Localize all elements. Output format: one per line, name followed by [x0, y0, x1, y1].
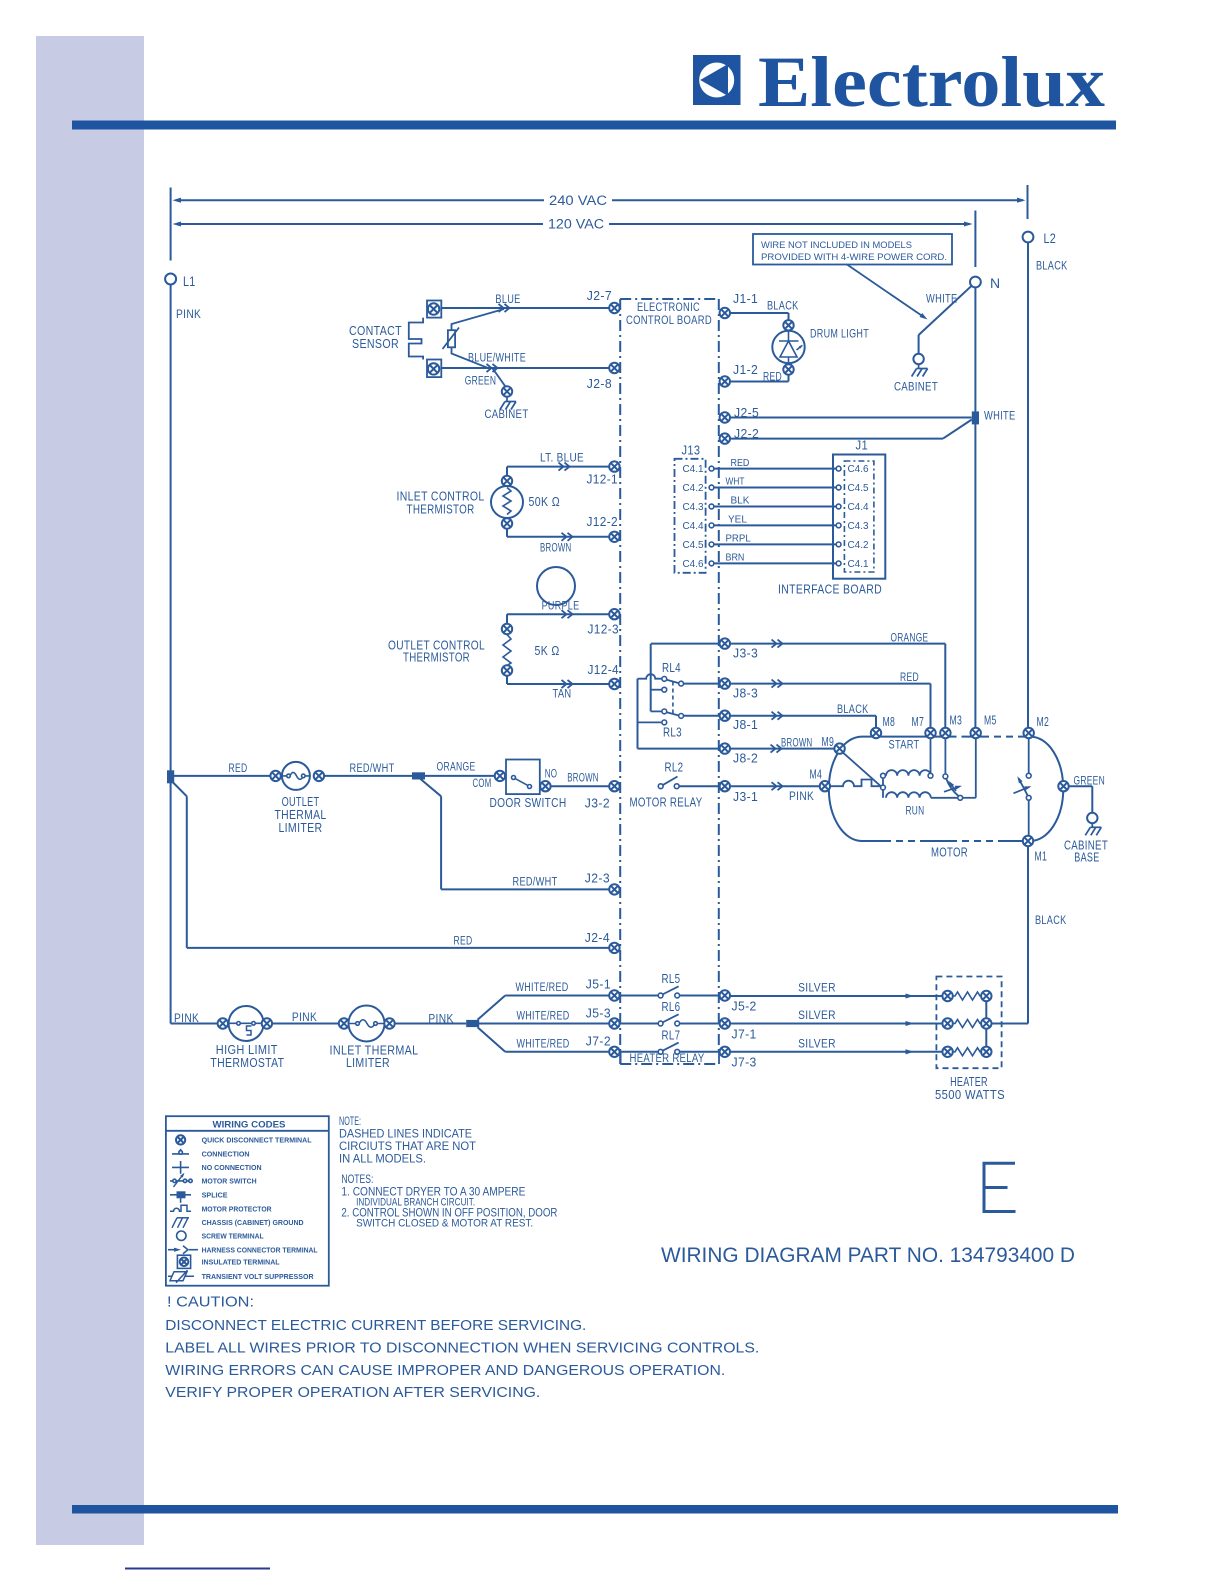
svg-text:CONNECTION: CONNECTION — [202, 1150, 250, 1159]
svg-text:THERMAL: THERMAL — [275, 808, 327, 822]
svg-text:C4.4: C4.4 — [848, 501, 869, 513]
svg-text:J7-2: J7-2 — [586, 1034, 611, 1049]
svg-text:HIGH LIMIT: HIGH LIMIT — [216, 1043, 278, 1057]
svg-text:INSULATED TERMINAL: INSULATED TERMINAL — [202, 1258, 280, 1267]
svg-text:WIRING DIAGRAM PART NO. 134793: WIRING DIAGRAM PART NO. 134793400 D — [661, 1244, 1075, 1267]
svg-text:MOTOR: MOTOR — [931, 846, 968, 860]
svg-text:PINK: PINK — [292, 1010, 317, 1024]
svg-text:J5-3: J5-3 — [586, 1006, 611, 1021]
svg-text:IN ALL MODELS.: IN ALL MODELS. — [339, 1153, 426, 1165]
svg-text:C4.2: C4.2 — [848, 539, 869, 551]
svg-text:PINK: PINK — [789, 789, 814, 803]
svg-text:MOTOR PROTECTOR: MOTOR PROTECTOR — [202, 1205, 272, 1214]
svg-text:J12-3: J12-3 — [588, 622, 620, 637]
svg-text:SILVER: SILVER — [798, 1008, 836, 1022]
svg-text:M1: M1 — [1035, 850, 1048, 864]
svg-text:J8-2: J8-2 — [733, 751, 758, 766]
svg-text:RED: RED — [731, 457, 750, 469]
svg-text:ELECTRONIC: ELECTRONIC — [637, 300, 700, 314]
svg-text:OUTLET: OUTLET — [282, 795, 320, 809]
svg-text:5K Ω: 5K Ω — [535, 644, 560, 658]
svg-text:THERMOSTAT: THERMOSTAT — [210, 1056, 284, 1070]
svg-text:RED: RED — [900, 670, 919, 684]
svg-text:LT. BLUE: LT. BLUE — [540, 451, 584, 465]
svg-text:BLUE: BLUE — [495, 292, 520, 306]
svg-text:C4.5: C4.5 — [683, 539, 704, 551]
svg-text:LIMITER: LIMITER — [346, 1056, 390, 1070]
svg-text:! CAUTION:: ! CAUTION: — [167, 1294, 254, 1311]
svg-text:DASHED LINES INDICATE: DASHED LINES INDICATE — [339, 1129, 472, 1141]
svg-text:240 VAC: 240 VAC — [549, 193, 607, 208]
svg-text:J2-8: J2-8 — [587, 376, 612, 391]
svg-text:M8: M8 — [883, 715, 896, 729]
svg-text:PRPL: PRPL — [726, 533, 751, 545]
svg-text:WHT: WHT — [726, 476, 745, 488]
svg-text:BASE: BASE — [1074, 851, 1099, 865]
svg-text:BLUE/WHITE: BLUE/WHITE — [468, 351, 526, 365]
svg-text:RL7: RL7 — [662, 1028, 681, 1042]
svg-text:J3-3: J3-3 — [733, 646, 758, 661]
svg-text:BLACK: BLACK — [1035, 913, 1067, 927]
svg-text:CONTROL BOARD: CONTROL BOARD — [626, 313, 712, 327]
svg-text:CABINET: CABINET — [894, 380, 938, 394]
svg-text:J2-7: J2-7 — [587, 288, 612, 303]
svg-text:50K Ω: 50K Ω — [529, 495, 561, 509]
svg-text:C4.1: C4.1 — [848, 558, 869, 570]
svg-text:N: N — [990, 275, 1001, 291]
svg-text:M3: M3 — [950, 714, 963, 728]
svg-text:J13: J13 — [682, 444, 701, 458]
svg-text:PINK: PINK — [176, 307, 201, 321]
svg-text:ORANGE: ORANGE — [891, 631, 929, 645]
svg-text:RED: RED — [229, 761, 248, 775]
svg-text:PINK: PINK — [428, 1012, 453, 1026]
svg-text:C4.1: C4.1 — [683, 463, 704, 475]
svg-text:BLACK: BLACK — [1036, 259, 1068, 273]
svg-text:RUN: RUN — [906, 804, 925, 818]
svg-text:J1-2: J1-2 — [733, 362, 758, 377]
svg-text:TAN: TAN — [553, 687, 572, 701]
svg-text:COM: COM — [473, 776, 492, 790]
svg-text:SILVER: SILVER — [798, 1036, 836, 1050]
svg-text:GREEN: GREEN — [465, 374, 497, 388]
svg-text:RL6: RL6 — [662, 1000, 681, 1014]
svg-text:C4.3: C4.3 — [848, 520, 869, 532]
svg-text:WHITE/RED: WHITE/RED — [516, 980, 569, 994]
svg-text:INLET CONTROL: INLET CONTROL — [397, 490, 485, 504]
svg-text:J2-3: J2-3 — [585, 871, 610, 886]
svg-text:J1-1: J1-1 — [733, 291, 758, 306]
svg-text:THERMISTOR: THERMISTOR — [403, 651, 470, 665]
svg-text:HEATER: HEATER — [950, 1075, 988, 1089]
svg-text:START: START — [889, 738, 920, 752]
svg-text:5500 WATTS: 5500 WATTS — [935, 1088, 1005, 1102]
svg-text:THERMISTOR: THERMISTOR — [407, 503, 475, 517]
svg-text:WIRING CODES: WIRING CODES — [213, 1120, 286, 1130]
svg-text:QUICK DISCONNECT TERMINAL: QUICK DISCONNECT TERMINAL — [202, 1136, 312, 1145]
svg-text:C4.4: C4.4 — [683, 520, 704, 532]
svg-text:RED/WHT: RED/WHT — [513, 875, 558, 889]
svg-text:RL3: RL3 — [663, 726, 682, 740]
svg-text:NO: NO — [545, 767, 558, 781]
svg-text:SILVER: SILVER — [798, 981, 836, 995]
svg-text:HARNESS CONNECTOR TERMINAL: HARNESS CONNECTOR TERMINAL — [202, 1246, 318, 1255]
svg-text:PINK: PINK — [174, 1011, 199, 1025]
svg-text:C4.6: C4.6 — [683, 558, 704, 570]
svg-text:M5: M5 — [984, 714, 997, 728]
svg-text:SENSOR: SENSOR — [352, 337, 399, 351]
svg-text:RED/WHT: RED/WHT — [350, 761, 395, 775]
svg-text:J8-1: J8-1 — [733, 717, 758, 732]
svg-text:SPLICE: SPLICE — [202, 1191, 228, 1200]
svg-text:LABEL ALL WIRES PRIOR TO DISCO: LABEL ALL WIRES PRIOR TO DISCONNECTION W… — [165, 1341, 759, 1357]
svg-text:RL4: RL4 — [662, 661, 681, 675]
svg-text:NO CONNECTION: NO CONNECTION — [202, 1163, 262, 1172]
svg-text:J2-4: J2-4 — [585, 930, 610, 945]
svg-text:J12-4: J12-4 — [588, 662, 620, 677]
svg-text:PROVIDED WITH 4-WIRE POWER COR: PROVIDED WITH 4-WIRE POWER CORD. — [761, 252, 947, 262]
svg-text:HEATER RELAY: HEATER RELAY — [630, 1051, 705, 1065]
svg-text:RL5: RL5 — [662, 972, 681, 986]
svg-text:RED: RED — [763, 370, 782, 384]
svg-text:ORANGE: ORANGE — [437, 760, 476, 774]
svg-text:J12-2: J12-2 — [587, 514, 619, 529]
svg-text:GREEN: GREEN — [1074, 774, 1106, 788]
svg-text:C4.5: C4.5 — [848, 482, 869, 494]
svg-text:WHITE/RED: WHITE/RED — [517, 1037, 570, 1051]
svg-text:M2: M2 — [1037, 715, 1050, 729]
svg-text:M4: M4 — [810, 768, 823, 782]
svg-text:INTERFACE BOARD: INTERFACE BOARD — [778, 583, 882, 597]
svg-text:J8-3: J8-3 — [733, 686, 758, 701]
svg-text:L1: L1 — [183, 273, 196, 289]
svg-text:SCREW TERMINAL: SCREW TERMINAL — [202, 1232, 264, 1241]
svg-text:WIRE NOT INCLUDED IN MODELS: WIRE NOT INCLUDED IN MODELS — [761, 240, 912, 250]
svg-text:M9: M9 — [822, 735, 835, 749]
svg-text:J12-1: J12-1 — [587, 472, 619, 487]
svg-text:BROWN: BROWN — [567, 771, 599, 785]
svg-text:NOTES:: NOTES: — [341, 1174, 373, 1186]
svg-text:BLACK: BLACK — [767, 299, 799, 313]
svg-text:J5-1: J5-1 — [586, 977, 611, 992]
svg-text:DISCONNECT ELECTRIC CURRENT BE: DISCONNECT ELECTRIC CURRENT BEFORE SERVI… — [165, 1318, 586, 1334]
svg-text:J3-1: J3-1 — [733, 789, 758, 804]
svg-text:LIMITER: LIMITER — [278, 821, 322, 835]
svg-text:BLACK: BLACK — [837, 702, 869, 716]
svg-text:J5-2: J5-2 — [732, 999, 757, 1014]
svg-text:Electrolux: Electrolux — [758, 42, 1105, 122]
svg-text:J1: J1 — [856, 439, 869, 453]
svg-text:120 VAC: 120 VAC — [548, 217, 604, 232]
svg-text:WHITE/RED: WHITE/RED — [517, 1009, 570, 1023]
svg-text:WIRING ERRORS CAN CAUSE IMPROP: WIRING ERRORS CAN CAUSE IMPROPER AND DAN… — [165, 1363, 725, 1379]
svg-text:WHITE: WHITE — [984, 409, 1016, 423]
svg-text:PURPLE: PURPLE — [542, 599, 580, 613]
svg-text:BLK: BLK — [731, 495, 750, 507]
svg-text:CHASSIS (CABINET) GROUND: CHASSIS (CABINET) GROUND — [202, 1218, 304, 1227]
svg-text:WHITE: WHITE — [926, 292, 958, 306]
svg-text:CABINET: CABINET — [484, 407, 528, 421]
svg-text:BROWN: BROWN — [781, 736, 813, 750]
svg-text:MOTOR SWITCH: MOTOR SWITCH — [202, 1177, 257, 1186]
svg-text:J7-1: J7-1 — [732, 1027, 757, 1042]
svg-text:MOTOR RELAY: MOTOR RELAY — [630, 796, 703, 810]
svg-text:BRN: BRN — [726, 552, 745, 564]
svg-text:TRANSIENT VOLT SUPPRESSOR: TRANSIENT VOLT SUPPRESSOR — [202, 1272, 314, 1281]
svg-text:C4.6: C4.6 — [848, 463, 869, 475]
svg-text:BROWN: BROWN — [540, 541, 572, 555]
svg-text:DRUM LIGHT: DRUM LIGHT — [810, 327, 869, 341]
svg-text:L2: L2 — [1044, 230, 1057, 246]
svg-text:NOTE:: NOTE: — [339, 1116, 361, 1128]
svg-text:M7: M7 — [912, 715, 925, 729]
svg-text:J3-2: J3-2 — [585, 796, 610, 811]
svg-text:RED: RED — [454, 934, 473, 948]
svg-text:VERIFY PROPER OPERATION AFTER: VERIFY PROPER OPERATION AFTER SERVICING. — [165, 1385, 540, 1401]
svg-text:CIRCIUTS THAT ARE NOT: CIRCIUTS THAT ARE NOT — [339, 1141, 476, 1153]
svg-text:DOOR SWITCH: DOOR SWITCH — [490, 796, 567, 810]
svg-text:CONTACT: CONTACT — [349, 324, 402, 338]
svg-text:YEL: YEL — [728, 514, 747, 526]
svg-text:SWITCH CLOSED & MOTOR AT REST.: SWITCH CLOSED & MOTOR AT REST. — [356, 1218, 533, 1230]
svg-text:C4.3: C4.3 — [683, 501, 704, 513]
svg-text:J7-3: J7-3 — [732, 1055, 757, 1070]
svg-text:C4.2: C4.2 — [683, 482, 704, 494]
svg-text:RL2: RL2 — [665, 761, 684, 775]
